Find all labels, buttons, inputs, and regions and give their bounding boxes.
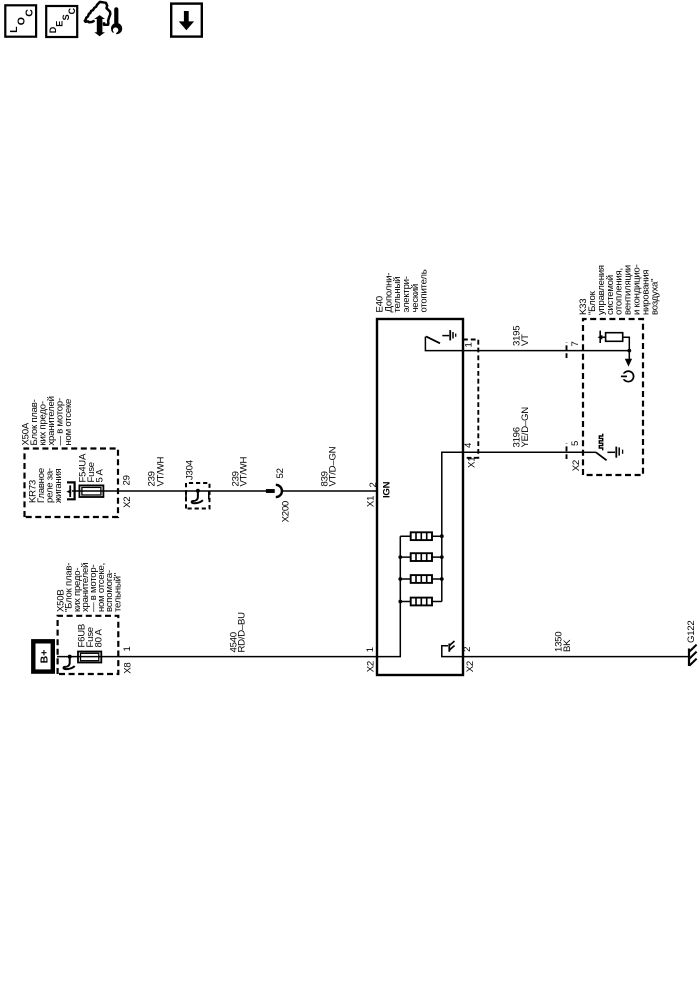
svg-text:X2: X2 — [571, 460, 582, 471]
fuse block X50B dashed box — [58, 616, 119, 674]
icon DESC box — [46, 6, 77, 37]
icon down-arrow box — [171, 4, 202, 37]
svg-text:VT/WH: VT/WH — [155, 457, 166, 487]
ground G122 — [688, 649, 690, 667]
heater element R4 — [411, 532, 432, 540]
fuse F6UB 80 A — [78, 652, 101, 663]
svg-text:X8: X8 — [123, 663, 134, 674]
connector tick X2:7 — [566, 342, 568, 358]
connector tick X2:5 — [566, 443, 568, 459]
svg-text:отопитель: отопитель — [419, 269, 430, 312]
connector X1 dashed bracket — [463, 340, 478, 458]
J304 edge ticks — [186, 491, 209, 499]
square wave symbol — [599, 434, 602, 451]
heater element R1 — [411, 598, 432, 606]
internal ground wire at X2:2 — [442, 646, 463, 657]
heater element R3 — [411, 553, 432, 561]
svg-text:X1: X1 — [366, 496, 377, 507]
icon LOC box — [5, 5, 36, 36]
svg-text:BK: BK — [562, 639, 573, 652]
svg-text:1: 1 — [122, 646, 133, 651]
svg-text:воздуха": воздуха" — [649, 279, 660, 315]
HVAC control module K33 dashed box — [583, 319, 643, 475]
heater module E40 box — [377, 319, 463, 675]
wire 1350 BK — [463, 656, 689, 658]
svg-text:жигания: жигания — [53, 468, 64, 503]
K33 internal wire pin7 — [583, 337, 629, 350]
svg-text:G122: G122 — [686, 621, 697, 643]
svg-text:1: 1 — [365, 647, 376, 652]
svg-text:J304: J304 — [185, 459, 196, 480]
fuse block X50A dashed box — [25, 449, 119, 518]
internal status switch at X1:1 — [425, 337, 463, 351]
junction dots bottom rail — [440, 577, 444, 581]
svg-text:E: E — [55, 21, 65, 27]
heater element R2 — [411, 575, 432, 583]
icon vehicle-service (car outline, double arrow, wrench) — [85, 2, 111, 25]
svg-text:5: 5 — [570, 441, 581, 446]
svg-text:C: C — [67, 7, 77, 14]
svg-text:2: 2 — [368, 482, 379, 487]
svg-text:C: C — [23, 9, 35, 17]
svg-text:X2: X2 — [366, 661, 377, 672]
wire B+ feed / 4540 (vertical) — [57, 656, 377, 658]
relay KR73 contact — [67, 482, 75, 499]
fuse F54UA 5 A — [79, 485, 103, 497]
svg-text:29: 29 — [122, 475, 133, 485]
wire 3195 VT — [463, 350, 583, 352]
svg-text:X1: X1 — [467, 457, 478, 468]
svg-text:RD/D–BU: RD/D–BU — [237, 612, 248, 653]
connector X200 pin 52 — [266, 489, 275, 493]
junction dots top rail — [398, 600, 402, 604]
svg-text:X200: X200 — [281, 501, 292, 522]
heater element stubs bottom — [432, 536, 442, 601]
svg-text:1: 1 — [464, 342, 475, 347]
internal chassis ground symbol E40 — [448, 644, 450, 652]
splice in X50B — [68, 655, 72, 659]
arrow to power symbol — [628, 351, 630, 360]
battery feed B+ — [33, 641, 53, 671]
splice J304 dashed box — [186, 483, 210, 509]
svg-text:тельный": тельный" — [112, 573, 123, 612]
internal B+ rail — [377, 536, 400, 656]
wire 3196 YE/D-GN — [463, 451, 583, 453]
svg-text:VT/WH: VT/WH — [239, 457, 250, 487]
svg-text:X2: X2 — [465, 661, 476, 672]
wire ignition feed (vertical main) — [72, 490, 275, 492]
svg-text:X2: X2 — [122, 497, 133, 508]
svg-text:2: 2 — [462, 647, 473, 652]
internal ground symbol at switch — [442, 335, 449, 337]
power symbol — [623, 371, 634, 382]
svg-text:B+: B+ — [38, 650, 50, 664]
K33 pull-up resistor — [606, 333, 623, 342]
internal control rail to X1:4 — [442, 452, 463, 601]
svg-text:IGN: IGN — [382, 481, 393, 498]
svg-text:4: 4 — [463, 442, 474, 448]
svg-text:O: O — [16, 17, 28, 25]
svg-text:L: L — [8, 26, 20, 33]
contact above resistor — [599, 331, 601, 343]
PWM switch blade — [596, 452, 607, 460]
svg-text:VT: VT — [520, 334, 531, 346]
K33 internal wire pin5 — [583, 451, 596, 453]
svg-text:7: 7 — [570, 341, 581, 346]
splice symbol J304 — [196, 489, 200, 493]
heater element stubs top — [400, 536, 410, 601]
svg-text:YE/D–GN: YE/D–GN — [520, 407, 531, 448]
switch contact + ground K33 — [607, 451, 615, 453]
svg-text:52: 52 — [275, 468, 286, 478]
svg-text:5 A: 5 A — [95, 469, 106, 483]
svg-text:VT/D–GN: VT/D–GN — [328, 446, 339, 486]
svg-text:80 A: 80 A — [94, 628, 105, 647]
svg-text:ном отсеке: ном отсеке — [63, 399, 74, 446]
